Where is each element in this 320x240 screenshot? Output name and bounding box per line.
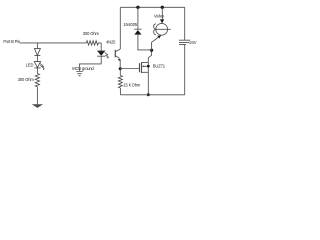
wire collector riser to +24V rail	[119, 7, 121, 49]
svg-text:Port B Pin: Port B Pin	[3, 39, 21, 44]
wire opto LED cathode to MCU ground	[80, 56, 102, 71]
svg-text:Valve: Valve	[154, 14, 165, 19]
node body-source dot	[147, 65, 150, 68]
opto-LED D3 (4N25 input, filled)	[97, 51, 105, 56]
svg-text:15 k Ohm: 15 k Ohm	[123, 83, 140, 88]
wire LED to resistor R1	[36, 68, 38, 74]
wire gate lead	[120, 68, 139, 70]
wire main horizontal from Port B Pin to opto LED	[20, 42, 102, 44]
svg-text:4N25: 4N25	[106, 40, 116, 45]
ground (arrow style)	[32, 104, 43, 108]
wire rail to valve	[161, 7, 163, 19]
wire 1N4005 anode to lower rail	[138, 35, 152, 50]
diode D1 (open)	[34, 49, 40, 56]
valve V1 (motor circle with coil)	[160, 19, 164, 23]
svg-text:300 Ohm: 300 Ohm	[83, 31, 100, 36]
opto light arrows	[105, 53, 109, 58]
svg-text:1N4005: 1N4005	[123, 22, 137, 27]
battery B1 24V	[179, 40, 190, 44]
wire D1 to LED	[36, 56, 38, 62]
opto-coupler U1 4N25 phototransistor	[114, 50, 116, 57]
transistor Q1 BUZ71	[139, 63, 141, 72]
resistor R2 300 Ohm horizontal	[86, 41, 98, 45]
node source-rail dot	[147, 93, 150, 96]
wire drain up with jog	[148, 50, 151, 62]
svg-text:MCU ground: MCU ground	[72, 66, 94, 71]
resistor R3 15 k Ohm	[118, 76, 122, 89]
wire source down to rail	[147, 72, 149, 95]
wire top rail +24V	[120, 6, 184, 8]
node emitter junction dot	[119, 67, 122, 70]
wire to 15k resistor	[119, 69, 121, 76]
wire bottom rail	[120, 94, 184, 96]
valve bottom arrow + wire to collector node	[157, 35, 161, 38]
svg-text:LED: LED	[26, 63, 34, 68]
svg-text:24V: 24V	[189, 40, 196, 45]
diode D4 1N4005 (filled, pointing up)	[134, 28, 141, 30]
wire rail to 1N4005 cathode	[137, 7, 139, 29]
svg-text:BUZ71: BUZ71	[153, 64, 166, 69]
resistor R1 300 Ohm vertical	[35, 74, 39, 87]
LED D2 (open, with emission arrows)	[34, 62, 40, 68]
node collector junction dot	[150, 49, 153, 52]
svg-text:300 Ohm: 300 Ohm	[18, 77, 35, 82]
node valve-top dot	[161, 6, 164, 9]
wire rail right corner down to battery	[184, 7, 186, 40]
wire branch down to D1	[36, 43, 38, 49]
opto-coupler U1 emitter lead	[116, 56, 120, 59]
wire battery to bottom rail	[184, 45, 186, 95]
wire R3 to bottom rail	[119, 88, 121, 95]
ground MCU (3-bar)	[76, 72, 83, 76]
node diode-top dot	[136, 6, 139, 9]
wire R1 to ground arrow	[36, 87, 38, 104]
wire into opto LED anode	[100, 43, 102, 51]
